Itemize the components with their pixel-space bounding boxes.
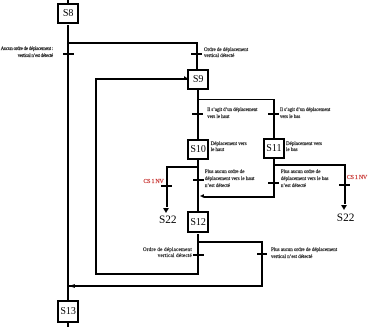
arrowhead into S12 column bbox=[200, 194, 204, 198]
label t6: Plus aucun ordre de deplacement vers le haut n'est detecte bbox=[205, 170, 255, 190]
wire right branch vertical below S12 bbox=[261, 241, 263, 287]
wire loopback horizontal from S12 branch bbox=[95, 273, 199, 275]
wire bottom horizontal to main line bbox=[69, 285, 263, 287]
label t2: Ordre de deplacement vertical detecte bbox=[204, 48, 248, 61]
wire S9 down to divergence bbox=[197, 90, 199, 100]
step S9 bbox=[187, 69, 209, 90]
wire divergence bar below S11 bbox=[273, 164, 345, 166]
wire divergence bar below S12 bbox=[197, 241, 263, 243]
wire branch down to S11 bbox=[273, 99, 275, 139]
label t3: Il s'agit d'un deplacement vers le haut bbox=[207, 108, 257, 121]
transition tick t2 (ordre de deplacement) bbox=[191, 53, 202, 55]
jump label S22 left bbox=[152, 214, 184, 226]
wire S11 down bbox=[273, 159, 275, 197]
transition tick t4 (il s'agit ... bas) bbox=[268, 113, 279, 115]
wire main left vertical S8 to S13 bbox=[67, 25, 69, 301]
transition tick t9 (ordre ... detecte, loop) bbox=[193, 254, 204, 256]
label t10: Plus aucun ordre de deplacement vertical n'est detecte bbox=[271, 247, 337, 261]
step S12 bbox=[187, 211, 209, 233]
label t5: CS 1 NV (red) bbox=[123, 179, 164, 186]
label t8: CS 1 NV (red) bbox=[347, 175, 367, 182]
transition tick t5 (CS 1 NV left) bbox=[161, 185, 172, 187]
label t9: Ordre de deplacement vertical detecte bbox=[122, 248, 192, 260]
wire top entry into S8 bbox=[67, 0, 69, 4]
arrowhead into S9 bbox=[184, 76, 187, 80]
transition tick t7 (plus aucun ... bas) bbox=[268, 182, 279, 184]
wire branch down to S10 bbox=[197, 99, 199, 139]
transition tick t6 (plus aucun ... haut) bbox=[193, 179, 204, 181]
wire divergence bar below S9 bbox=[197, 99, 274, 101]
step S8 bbox=[57, 3, 79, 24]
wire top horizontal branch to S9 bbox=[67, 42, 197, 44]
action label of S10: Deplacement vers le haut bbox=[211, 142, 247, 155]
wire CS-right branch vertical bbox=[344, 164, 346, 205]
transition tick t3 (il s'agit ... haut) bbox=[192, 113, 203, 115]
label t7: Plus aucun ordre de deplacement vers le bas n'est detecte bbox=[281, 170, 329, 190]
step S11 bbox=[263, 138, 285, 159]
wire vertical down to S9 bbox=[196, 42, 198, 68]
wire divergence bar below S10 bbox=[166, 166, 199, 168]
step S10 bbox=[187, 139, 209, 160]
transition tick t10 (plus aucun ... vertical) bbox=[257, 253, 268, 255]
label t4: Il s'agit d'un deplacement vers le bas bbox=[280, 108, 330, 121]
transition tick t1 (aucun ordre) bbox=[63, 53, 73, 55]
wire loopback arrow into S9 bbox=[95, 78, 187, 80]
step S13 bbox=[57, 300, 79, 322]
wire loopback vertical bbox=[95, 78, 97, 275]
jump label S22 right bbox=[330, 212, 362, 224]
wire below S13 bbox=[67, 323, 69, 327]
transition tick t8 (CS 1 NV right) bbox=[339, 184, 350, 186]
arrowhead down to S22 left bbox=[163, 208, 169, 213]
wire CS-left branch vertical bbox=[166, 166, 168, 208]
action label of S11: Deplacement vers le bas bbox=[286, 142, 322, 155]
wire convergence horizontal into S12 column bbox=[204, 196, 275, 198]
label t1: Aucun ordre de deplacement vertical n'est detecte bbox=[1, 46, 53, 61]
arrowhead down to S22 right bbox=[341, 205, 347, 210]
wire S10 down to S12 bbox=[197, 160, 199, 212]
arrowhead into main line bbox=[69, 284, 75, 288]
wire S12 down to loop corner bbox=[197, 234, 199, 275]
